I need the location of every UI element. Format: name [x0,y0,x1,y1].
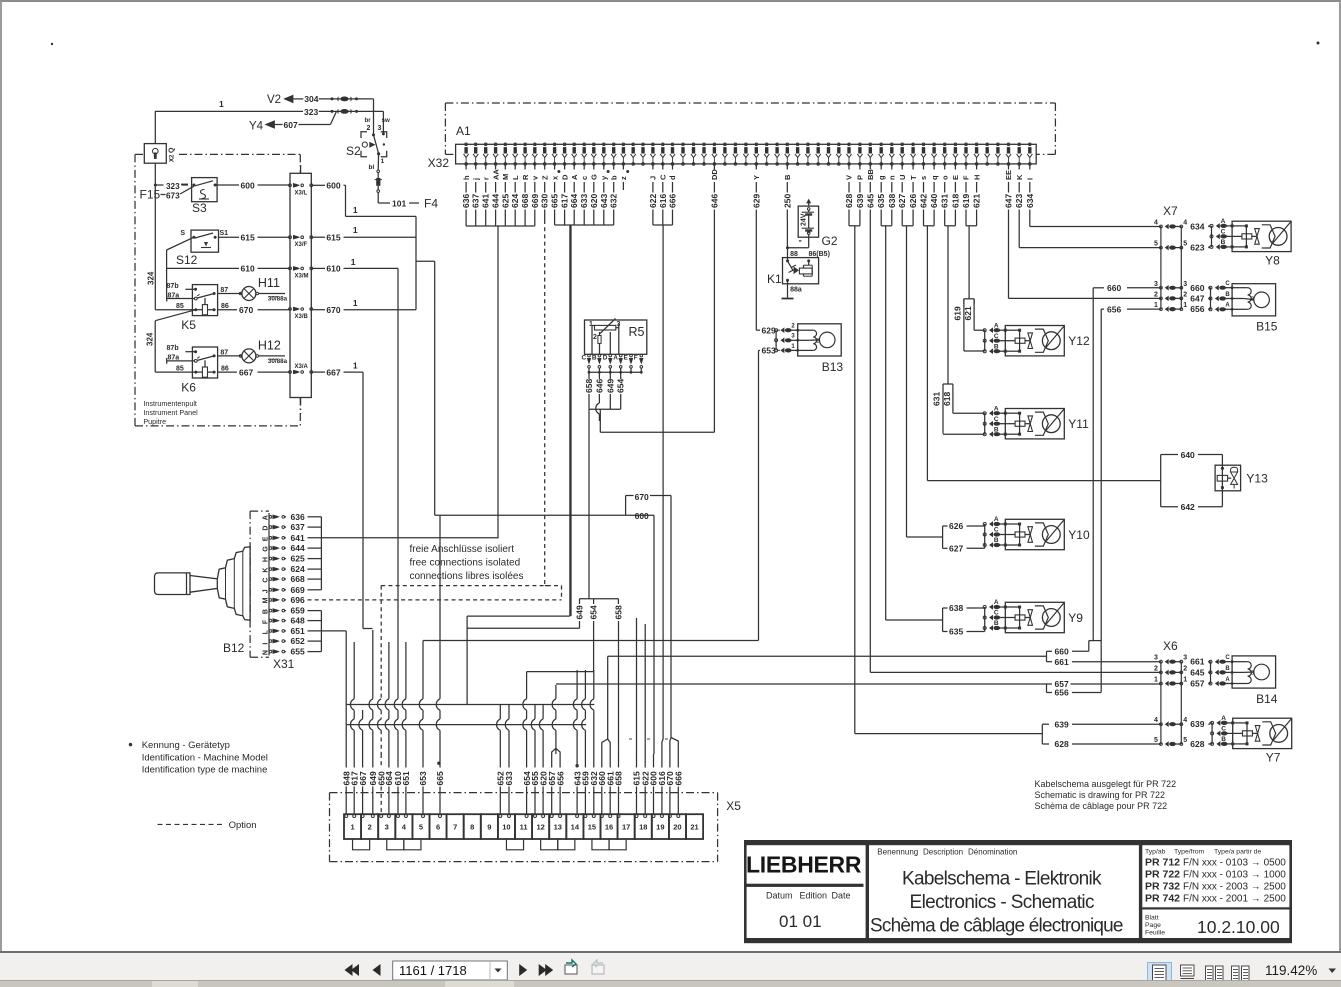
svg-text:F: F [962,175,971,180]
svg-text:2: 2 [1154,291,1158,298]
svg-text:637: 637 [291,522,305,532]
svg-text:B: B [816,339,820,345]
svg-text:Electronics - Schematic: Electronics - Schematic [910,892,1095,913]
R5 lower wires [589,394,714,599]
svg-text:bl: bl [369,164,375,171]
svg-text:G2: G2 [822,234,838,248]
svg-text:Edition: Edition [800,891,828,901]
svg-text:9: 9 [487,823,491,832]
svg-text:PR 712: PR 712 [1145,857,1180,869]
svg-text:626: 626 [908,194,918,208]
svg-text:642: 642 [919,194,929,208]
svg-text:656: 656 [555,771,565,785]
valve Y12 [953,299,1090,356]
svg-text:K6: K6 [181,380,196,394]
svg-text:3: 3 [1154,655,1158,662]
switch S12 [176,230,290,267]
svg-text:640: 640 [1181,450,1195,460]
svg-text:630: 630 [540,194,550,208]
svg-text:88a: 88a [790,287,802,294]
svg-text:632: 632 [609,194,619,208]
svg-text:C: C [994,610,999,617]
svg-text:85: 85 [176,303,184,310]
svg-text:o: o [940,175,949,180]
svg-text:B13: B13 [822,360,844,374]
relay K1 [767,251,830,298]
svg-text:2: 2 [791,324,795,330]
svg-text:628: 628 [844,194,854,208]
svg-text:657: 657 [1190,679,1204,689]
svg-text:626: 626 [949,521,963,531]
svg-text:647: 647 [1190,293,1204,303]
svg-text:3: 3 [791,334,795,340]
svg-text:X7: X7 [1163,204,1178,218]
svg-text:Q: Q [169,147,176,153]
svg-text:F/N xxx - 2003 → 2500: F/N xxx - 2003 → 2500 [1183,882,1286,893]
svg-text:1: 1 [353,298,358,308]
svg-text:658: 658 [584,379,594,393]
kennung dot 643 [575,764,578,767]
svg-text:2: 2 [367,125,371,132]
svg-text:623: 623 [1190,243,1204,253]
svg-text:C: C [1221,726,1226,733]
svg-text:633: 633 [504,771,514,785]
svg-text:631: 631 [940,194,950,208]
svg-text:V2: V2 [267,94,281,106]
svg-text:622: 622 [648,194,658,208]
svg-text:667: 667 [358,771,368,785]
svg-text:14: 14 [571,823,580,832]
svg-text:636: 636 [291,512,305,522]
note option legend [158,820,257,831]
svg-text:1: 1 [353,205,358,215]
svg-text:H: H [972,175,981,180]
wire 623 vertical [1018,220,1020,248]
svg-text:1: 1 [353,360,358,370]
svg-text:87b: 87b [167,283,179,290]
svg-text:A: A [1221,218,1226,225]
svg-text:655: 655 [291,647,305,657]
svg-text:641: 641 [291,533,305,543]
wire pair 628/639 [849,220,860,734]
svg-text:LIEBHERR: LIEBHERR [746,852,862,878]
svg-text:P: P [856,175,865,180]
svg-text:5: 5 [1183,241,1187,248]
svg-text:646: 646 [709,194,719,208]
svg-text:S3: S3 [192,201,207,215]
svg-text:G: G [263,546,270,552]
svg-text:658: 658 [613,605,623,619]
svg-text:5: 5 [419,823,423,832]
svg-text:640: 640 [929,194,939,208]
svg-text:A: A [613,355,618,362]
sensor B14 [1209,655,1278,706]
svg-text:C: C [994,333,999,340]
note schematic for PR722 [1035,779,1177,811]
svg-text:21: 21 [690,823,698,832]
svg-text:B: B [1221,736,1226,743]
svg-text:A: A [994,599,999,606]
svg-text:18: 18 [639,823,647,832]
svg-text:12: 12 [536,823,544,832]
svg-text:C: C [994,416,999,423]
svg-text:619: 619 [961,194,971,208]
svg-text:Instrument Panel: Instrument Panel [143,408,198,417]
wire 649/654/658 split [467,599,623,672]
svg-text:Y10: Y10 [1068,528,1090,542]
svg-text:01 01: 01 01 [779,912,822,931]
svg-text:X5: X5 [726,799,741,813]
svg-text:Instrumentenpult: Instrumentenpult [143,399,197,408]
wire pair 635/638 [881,220,892,620]
svg-text:5: 5 [1154,737,1158,744]
svg-text:A: A [1221,715,1226,722]
svg-text:Y12: Y12 [1068,334,1090,348]
wire 1/323 row [155,99,384,117]
svg-text:B: B [783,174,792,180]
wire pair 627/626 [902,220,913,537]
wire X7 to B15 [1208,288,1210,310]
svg-text:1: 1 [1154,302,1158,309]
svg-text:F/N xxx - 0103 → 0500: F/N xxx - 0103 → 0500 [1183,858,1286,869]
wire 657 long [552,679,1161,754]
svg-text:Y9: Y9 [1068,611,1083,625]
svg-text:K: K [263,568,270,573]
note kennung [129,740,268,776]
svg-text:B15: B15 [1256,320,1278,334]
valve Y8 [1208,218,1291,268]
svg-text:1: 1 [589,321,593,328]
svg-text:g: g [877,175,886,180]
connector X7 [1009,204,1210,314]
svg-text:2: 2 [1183,291,1187,298]
svg-text:634: 634 [1190,222,1204,232]
svg-text:660: 660 [1055,647,1069,657]
svg-text:323: 323 [304,107,318,117]
svg-text:B: B [1221,239,1226,246]
svg-text:A: A [263,515,270,520]
battery G2 [788,199,838,248]
svg-text:667: 667 [239,367,253,377]
gather bars [347,225,595,725]
svg-text:3: 3 [385,823,389,832]
svg-text:656: 656 [1107,304,1121,314]
svg-text:10: 10 [502,823,510,832]
svg-text:627: 627 [897,194,907,208]
svg-text:X6: X6 [1163,639,1178,653]
wire 250 vertical [786,220,789,261]
wire 653 from B13 [423,346,780,641]
svg-text:B: B [1225,292,1230,298]
resistor module R5 [585,319,647,355]
X31 wires [308,517,562,754]
wire 661 long [1047,656,1161,667]
svg-text:1: 1 [351,257,356,267]
svg-text:635: 635 [949,627,963,637]
svg-text:615: 615 [241,233,255,243]
title block [744,840,1292,943]
svg-text:K1: K1 [767,272,782,286]
svg-text:628: 628 [1190,739,1204,749]
svg-text:645: 645 [1190,667,1204,677]
controller A1 boundary [445,103,1055,154]
svg-text:617: 617 [560,194,570,208]
svg-text:660: 660 [1107,283,1121,293]
svg-text:304: 304 [304,94,318,104]
svg-text:644: 644 [291,543,305,553]
svg-text:M: M [501,174,510,180]
svg-text:C: C [659,174,668,180]
svg-text:Type/from: Type/from [1174,849,1205,856]
svg-text:PR 732: PR 732 [1145,881,1180,893]
svg-text:freie Anschlüsse isoliert: freie Anschlüsse isoliert [410,544,515,555]
svg-text:666: 666 [668,194,678,208]
svg-text:8: 8 [470,823,474,832]
svg-text:668: 668 [520,194,530,208]
R5 pins [582,354,644,393]
svg-text:669: 669 [291,585,305,595]
svg-text:633: 633 [579,194,589,208]
svg-text:A1: A1 [456,124,471,138]
svg-text:d: d [668,175,677,180]
svg-text:670: 670 [326,305,340,315]
svg-text:B: B [1225,666,1230,672]
svg-text:J: J [649,176,658,180]
connector X3 [289,165,313,414]
svg-text:1: 1 [791,344,795,350]
svg-text:H11: H11 [258,276,280,290]
svg-text:Z: Z [540,175,549,180]
svg-text:649: 649 [605,379,615,393]
svg-text:F/N xxx - 2001 → 2500: F/N xxx - 2001 → 2500 [1183,894,1286,905]
svg-text:619: 619 [953,306,963,320]
svg-text:628: 628 [1055,739,1069,749]
svg-text:Kabelschema ausgelegt für PR 7: Kabelschema ausgelegt für PR 722 [1035,779,1177,789]
wire 629 to B13 [756,325,780,335]
svg-text:600: 600 [326,181,340,191]
wire group 622-616-666 [653,220,673,739]
wire 656 long [1047,304,1161,697]
svg-text:16: 16 [605,823,613,832]
svg-text:Identification type de machine: Identification type de machine [142,765,268,776]
svg-text:A: A [994,322,999,329]
joystick B12 [155,547,251,655]
svg-text:621: 621 [963,306,973,320]
svg-text:K: K [1015,174,1024,180]
svg-text:661: 661 [1190,657,1204,667]
svg-text:DD: DD [710,169,719,180]
svg-text:H: H [263,557,270,562]
svg-text:B: B [994,343,999,350]
svg-text:Y: Y [752,175,761,180]
svg-text:r: r [481,177,490,180]
svg-text:19: 19 [656,823,664,832]
svg-text:N: N [263,650,270,655]
svg-text:X31: X31 [273,657,295,671]
wire 610 row left [167,264,290,274]
wire 645 vertical [869,220,871,672]
svg-text:647: 647 [1004,194,1014,208]
svg-text:3: 3 [1183,655,1187,662]
svg-text:X3/B: X3/B [295,314,309,320]
svg-text:657: 657 [1055,679,1069,689]
svg-text:y: y [600,175,609,180]
svg-text:v: v [531,175,540,180]
svg-text:q: q [930,175,939,180]
svg-text:17: 17 [622,823,630,832]
svg-text:B12: B12 [223,641,245,655]
svg-text:U: U [898,175,907,180]
svg-text:2: 2 [593,334,597,341]
svg-text:Dénomination: Dénomination [968,848,1017,857]
svg-text:660: 660 [1190,283,1204,293]
svg-text:643: 643 [599,194,609,208]
svg-text:11: 11 [520,823,528,832]
svg-text:616: 616 [658,194,668,208]
svg-text:F: F [634,355,638,362]
svg-text:324: 324 [146,332,155,346]
svg-text:618: 618 [950,194,960,208]
svg-text:87b: 87b [167,345,179,352]
wire 607 to Y4 [249,112,336,133]
svg-text:6: 6 [436,823,440,832]
svg-text:696: 696 [291,595,305,605]
svg-text:629: 629 [762,325,776,335]
wire pair 619/621 [966,220,977,299]
svg-text:X2: X2 [170,154,176,162]
svg-text:4: 4 [1154,220,1158,227]
svg-text:635: 635 [876,194,886,208]
instrument panel boundary [135,154,300,426]
X5 right feeders [619,618,646,754]
svg-text:610: 610 [326,264,340,274]
svg-text:B: B [1251,297,1255,303]
svg-text:636: 636 [461,194,471,208]
connector X32 pins [461,143,1035,220]
svg-text:A: A [994,516,999,523]
svg-text:C: C [1221,229,1226,236]
svg-text:b: b [609,175,618,180]
svg-text:654: 654 [616,379,626,393]
svg-text:B: B [994,426,999,433]
svg-text:B: B [994,620,999,627]
wire group 636-669 to node [466,220,535,538]
svg-text:621: 621 [972,194,982,208]
svg-text:C: C [994,527,999,534]
svg-text:PR 722: PR 722 [1145,869,1180,881]
fuse F4 [375,173,439,211]
wire 629 vertical [755,220,757,330]
svg-text:Feuille: Feuille [1145,930,1165,937]
switch S3 [155,178,290,215]
svg-text:2: 2 [1183,665,1187,672]
svg-text:651: 651 [291,626,305,636]
valve Y13 small [927,450,1268,512]
svg-text:651: 651 [401,771,411,785]
key switch X2/Q [144,111,175,185]
stray dot [51,43,53,45]
svg-text:661: 661 [1055,657,1069,667]
svg-text:3: 3 [1183,281,1187,288]
svg-text:5: 5 [1154,241,1158,248]
svg-text:Pupitre: Pupitre [143,417,166,426]
wire 630 option dashed [544,220,546,586]
svg-text:j: j [471,178,480,181]
svg-text:Y7: Y7 [1266,751,1281,765]
svg-text:119.42%: 119.42% [1265,963,1317,978]
svg-text:Identification - Machine Model: Identification - Machine Model [142,752,268,763]
svg-text:AA: AA [491,169,500,180]
svg-text:Y13: Y13 [1246,472,1268,486]
wire pair 642/640 [924,220,935,481]
svg-text:656: 656 [1055,688,1069,698]
svg-text:2: 2 [1154,665,1158,672]
relay K5 with lamp H11 [167,276,288,332]
svg-text:F15: F15 [140,188,161,202]
svg-text:1161 / 1718: 1161 / 1718 [399,963,467,978]
svg-text:629: 629 [751,194,761,208]
svg-text:C: C [263,578,270,583]
svg-text:653: 653 [762,346,776,356]
wire 647 vertical [1008,220,1010,298]
svg-text:4: 4 [1183,717,1187,724]
svg-text:639: 639 [855,194,865,208]
svg-text:654: 654 [589,605,599,619]
svg-text:664: 664 [569,194,579,208]
stray dot right [1317,42,1320,45]
svg-text:Kennung - Gerätetyp: Kennung - Gerätetyp [142,740,230,751]
svg-text:642: 642 [1181,502,1195,512]
svg-text:644: 644 [491,194,501,208]
svg-text:641: 641 [481,194,491,208]
svg-text:15: 15 [588,823,596,832]
svg-text:L: L [263,629,270,634]
svg-text:C: C [1225,281,1230,287]
svg-text:4: 4 [402,823,407,832]
svg-text:D: D [560,174,569,180]
svg-text:607: 607 [284,120,298,130]
svg-text:638: 638 [887,194,897,208]
wire X6 to B14 [1208,662,1210,684]
svg-text:665: 665 [435,771,445,785]
svg-text:625: 625 [291,554,305,564]
wire 670 row [218,305,290,315]
svg-text:Y8: Y8 [1265,254,1280,268]
wire 667 row [218,367,290,377]
svg-text:K5: K5 [181,318,196,332]
connector X32 strip [428,144,1037,170]
svg-text:673: 673 [166,192,180,201]
svg-text:634: 634 [1025,194,1035,208]
svg-text:Type/a partir de: Type/a partir de [1214,849,1261,856]
wire 634 vertical [1029,220,1031,227]
svg-text:sw: sw [382,117,390,124]
fuse F15 label [140,182,194,202]
svg-text:1: 1 [350,823,354,832]
svg-text:665: 665 [550,194,560,208]
svg-text:Typ/ab: Typ/ab [1145,849,1166,856]
svg-text:E: E [951,175,960,180]
svg-text:667: 667 [326,367,340,377]
svg-text:4: 4 [1154,717,1158,724]
svg-text:670: 670 [635,492,649,502]
svg-text:20: 20 [673,823,681,832]
svg-text:F/N xxx - 0103 → 1000: F/N xxx - 0103 → 1000 [1183,870,1286,881]
svg-text:S: S [180,230,185,237]
valve Y9 [886,599,1084,637]
svg-text:X3/L: X3/L [295,190,308,196]
svg-text:H12: H12 [258,338,281,352]
